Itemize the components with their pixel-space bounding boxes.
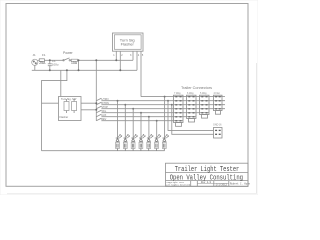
junction U1 pin2	[119, 69, 121, 71]
wire relay to ground vertical	[42, 102, 59, 104]
svg-text:Power: Power	[63, 51, 73, 55]
faint image edge	[0, 0, 258, 195]
svg-text:25A: 25A	[39, 61, 46, 65]
junction D4 line5	[140, 112, 142, 114]
LED D7	[162, 135, 168, 151]
junction GND tap A	[167, 100, 169, 102]
svg-text:2: 2	[121, 54, 123, 57]
svg-text:Turn Sig. SW: Turn Sig. SW	[61, 97, 77, 101]
wire	[38, 59, 40, 61]
switch SW1 (Power)	[64, 58, 70, 60]
junction GND tap B	[171, 104, 173, 106]
svg-text:100u: 100u	[52, 62, 59, 66]
capacitor C1	[48, 60, 52, 70]
junction D1 line2	[117, 100, 119, 102]
connector P4 (4-way)	[214, 95, 223, 110]
svg-text:Trailer Light Tester: Trailer Light Tester	[175, 166, 240, 174]
svg-text:REV: REV	[101, 118, 106, 121]
junction U1 pin1	[115, 59, 117, 61]
svg-text:R/TRN: R/TRN	[101, 102, 109, 105]
wire pin5 to line1	[140, 56, 142, 97]
wire pin3	[132, 56, 134, 60]
bus line 4	[102, 108, 222, 110]
pin pads P3	[201, 96, 207, 113]
wire relay from return	[60, 70, 62, 96]
connector J1 (power input)	[32, 59, 38, 65]
svg-text:TAIL: TAIL	[101, 110, 107, 113]
faint page shadow right	[255, 63, 257, 194]
LED D2	[123, 135, 129, 151]
LED D6	[155, 135, 161, 151]
svg-text:STOP: STOP	[101, 106, 108, 109]
connector labels	[174, 92, 222, 127]
svg-text:5 Way: 5 Way	[200, 92, 207, 95]
svg-text:6 Way: 6 Way	[187, 92, 194, 95]
junction C1 bottom	[49, 69, 51, 71]
svg-text:Flasher: Flasher	[60, 115, 69, 119]
bus line 7	[102, 120, 183, 122]
junction relay out B	[95, 109, 97, 111]
wire relay to rail	[81, 103, 96, 110]
wire	[71, 59, 134, 61]
junction D6 line7	[156, 120, 158, 122]
switch SW3 (right turn)	[96, 102, 102, 105]
sheet border	[6, 4, 248, 187]
svg-text:AUX: AUX	[101, 114, 106, 117]
bus line 1	[141, 96, 222, 98]
component A1	[71, 59, 77, 61]
LED D5	[147, 135, 153, 151]
svg-text:1/1/2012: 1/1/2012	[216, 184, 228, 187]
relay box K1	[59, 97, 82, 121]
svg-text:4 Flat: 4 Flat	[214, 92, 220, 95]
pin pads P4	[215, 96, 221, 109]
svg-text:All Rights Reserved: All Rights Reserved	[166, 184, 190, 187]
pin pads P2	[188, 96, 194, 117]
switch SW4 (stop)	[96, 106, 102, 109]
pin pads J6	[215, 130, 217, 131]
svg-text:J1: J1	[33, 53, 37, 57]
svg-text:Robert C. Korn: Robert C. Korn	[230, 182, 251, 185]
wire (return bus)	[32, 69, 137, 71]
flasher unit U1 (box)	[113, 33, 144, 51]
junction relay out A	[95, 102, 97, 104]
junction switch feed	[95, 59, 97, 61]
wire (tap at x78.5)	[78, 60, 80, 70]
connector P3 (5-way)	[200, 95, 210, 114]
junction D5 line6	[148, 116, 150, 118]
switch labels	[101, 98, 109, 121]
wire pin2 to return	[119, 56, 121, 70]
bus line 5	[102, 112, 209, 114]
svg-text:1: 1	[113, 54, 115, 57]
connector P2 (6-way)	[187, 95, 197, 118]
stubs right of P4	[222, 97, 225, 109]
svg-text:Trailer Connectors: Trailer Connectors	[181, 86, 212, 90]
svg-text:5: 5	[142, 54, 144, 57]
title block	[166, 163, 249, 186]
bottom ground bus	[42, 150, 165, 152]
svg-text:L/TRN: L/TRN	[101, 98, 108, 101]
GND connector J6	[214, 128, 223, 139]
switch SW7 (reverse)	[96, 118, 102, 121]
LED verticals	[118, 97, 165, 138]
svg-text:GND J6: GND J6	[213, 124, 222, 127]
switch SW5 (tail)	[96, 110, 102, 113]
wire (switch feed)	[95, 60, 97, 120]
svg-text:7 Way: 7 Way	[174, 92, 181, 95]
bus line 2	[102, 100, 222, 102]
svg-text:10A: 10A	[71, 61, 78, 65]
junction D2 line3	[124, 104, 126, 106]
wire taps to GND connector	[168, 101, 214, 135]
bus line 3	[102, 104, 222, 106]
junction tap bottom	[78, 69, 80, 71]
pin pads P1	[175, 96, 181, 121]
wire	[44, 59, 63, 61]
svg-text:F1: F1	[42, 53, 46, 57]
junction tap top	[78, 59, 80, 61]
svg-text:4: 4	[138, 54, 140, 57]
wire pin1 to power	[115, 56, 117, 60]
wire pin4	[136, 56, 138, 70]
junction D7 line1	[164, 96, 166, 98]
connector P1 (7-way)	[174, 95, 184, 122]
switch SW2 (left turn)	[96, 98, 102, 101]
labels (small grey text)	[33, 38, 223, 126]
pins of U1	[116, 51, 141, 56]
svg-text:Rev 1.0: Rev 1.0	[201, 181, 212, 184]
svg-text:3: 3	[130, 54, 132, 57]
faint page shadow bottom	[7, 193, 256, 195]
junction D3 line4	[132, 108, 134, 110]
pin labels U1	[113, 54, 144, 57]
junction C1 top	[49, 59, 51, 61]
switch SW6 (aux)	[96, 114, 102, 117]
wire (J1 bottom pin)	[34, 65, 36, 70]
bus line 6	[102, 116, 196, 118]
LED D3	[131, 135, 137, 151]
fuse F1	[39, 59, 44, 62]
LED D1	[116, 135, 122, 151]
wire (ground drop)	[42, 70, 67, 150]
junction ground drop	[66, 69, 68, 71]
trailer connector blocks	[174, 95, 226, 126]
LED D4	[139, 135, 145, 151]
svg-text:Flasher: Flasher	[121, 43, 135, 47]
